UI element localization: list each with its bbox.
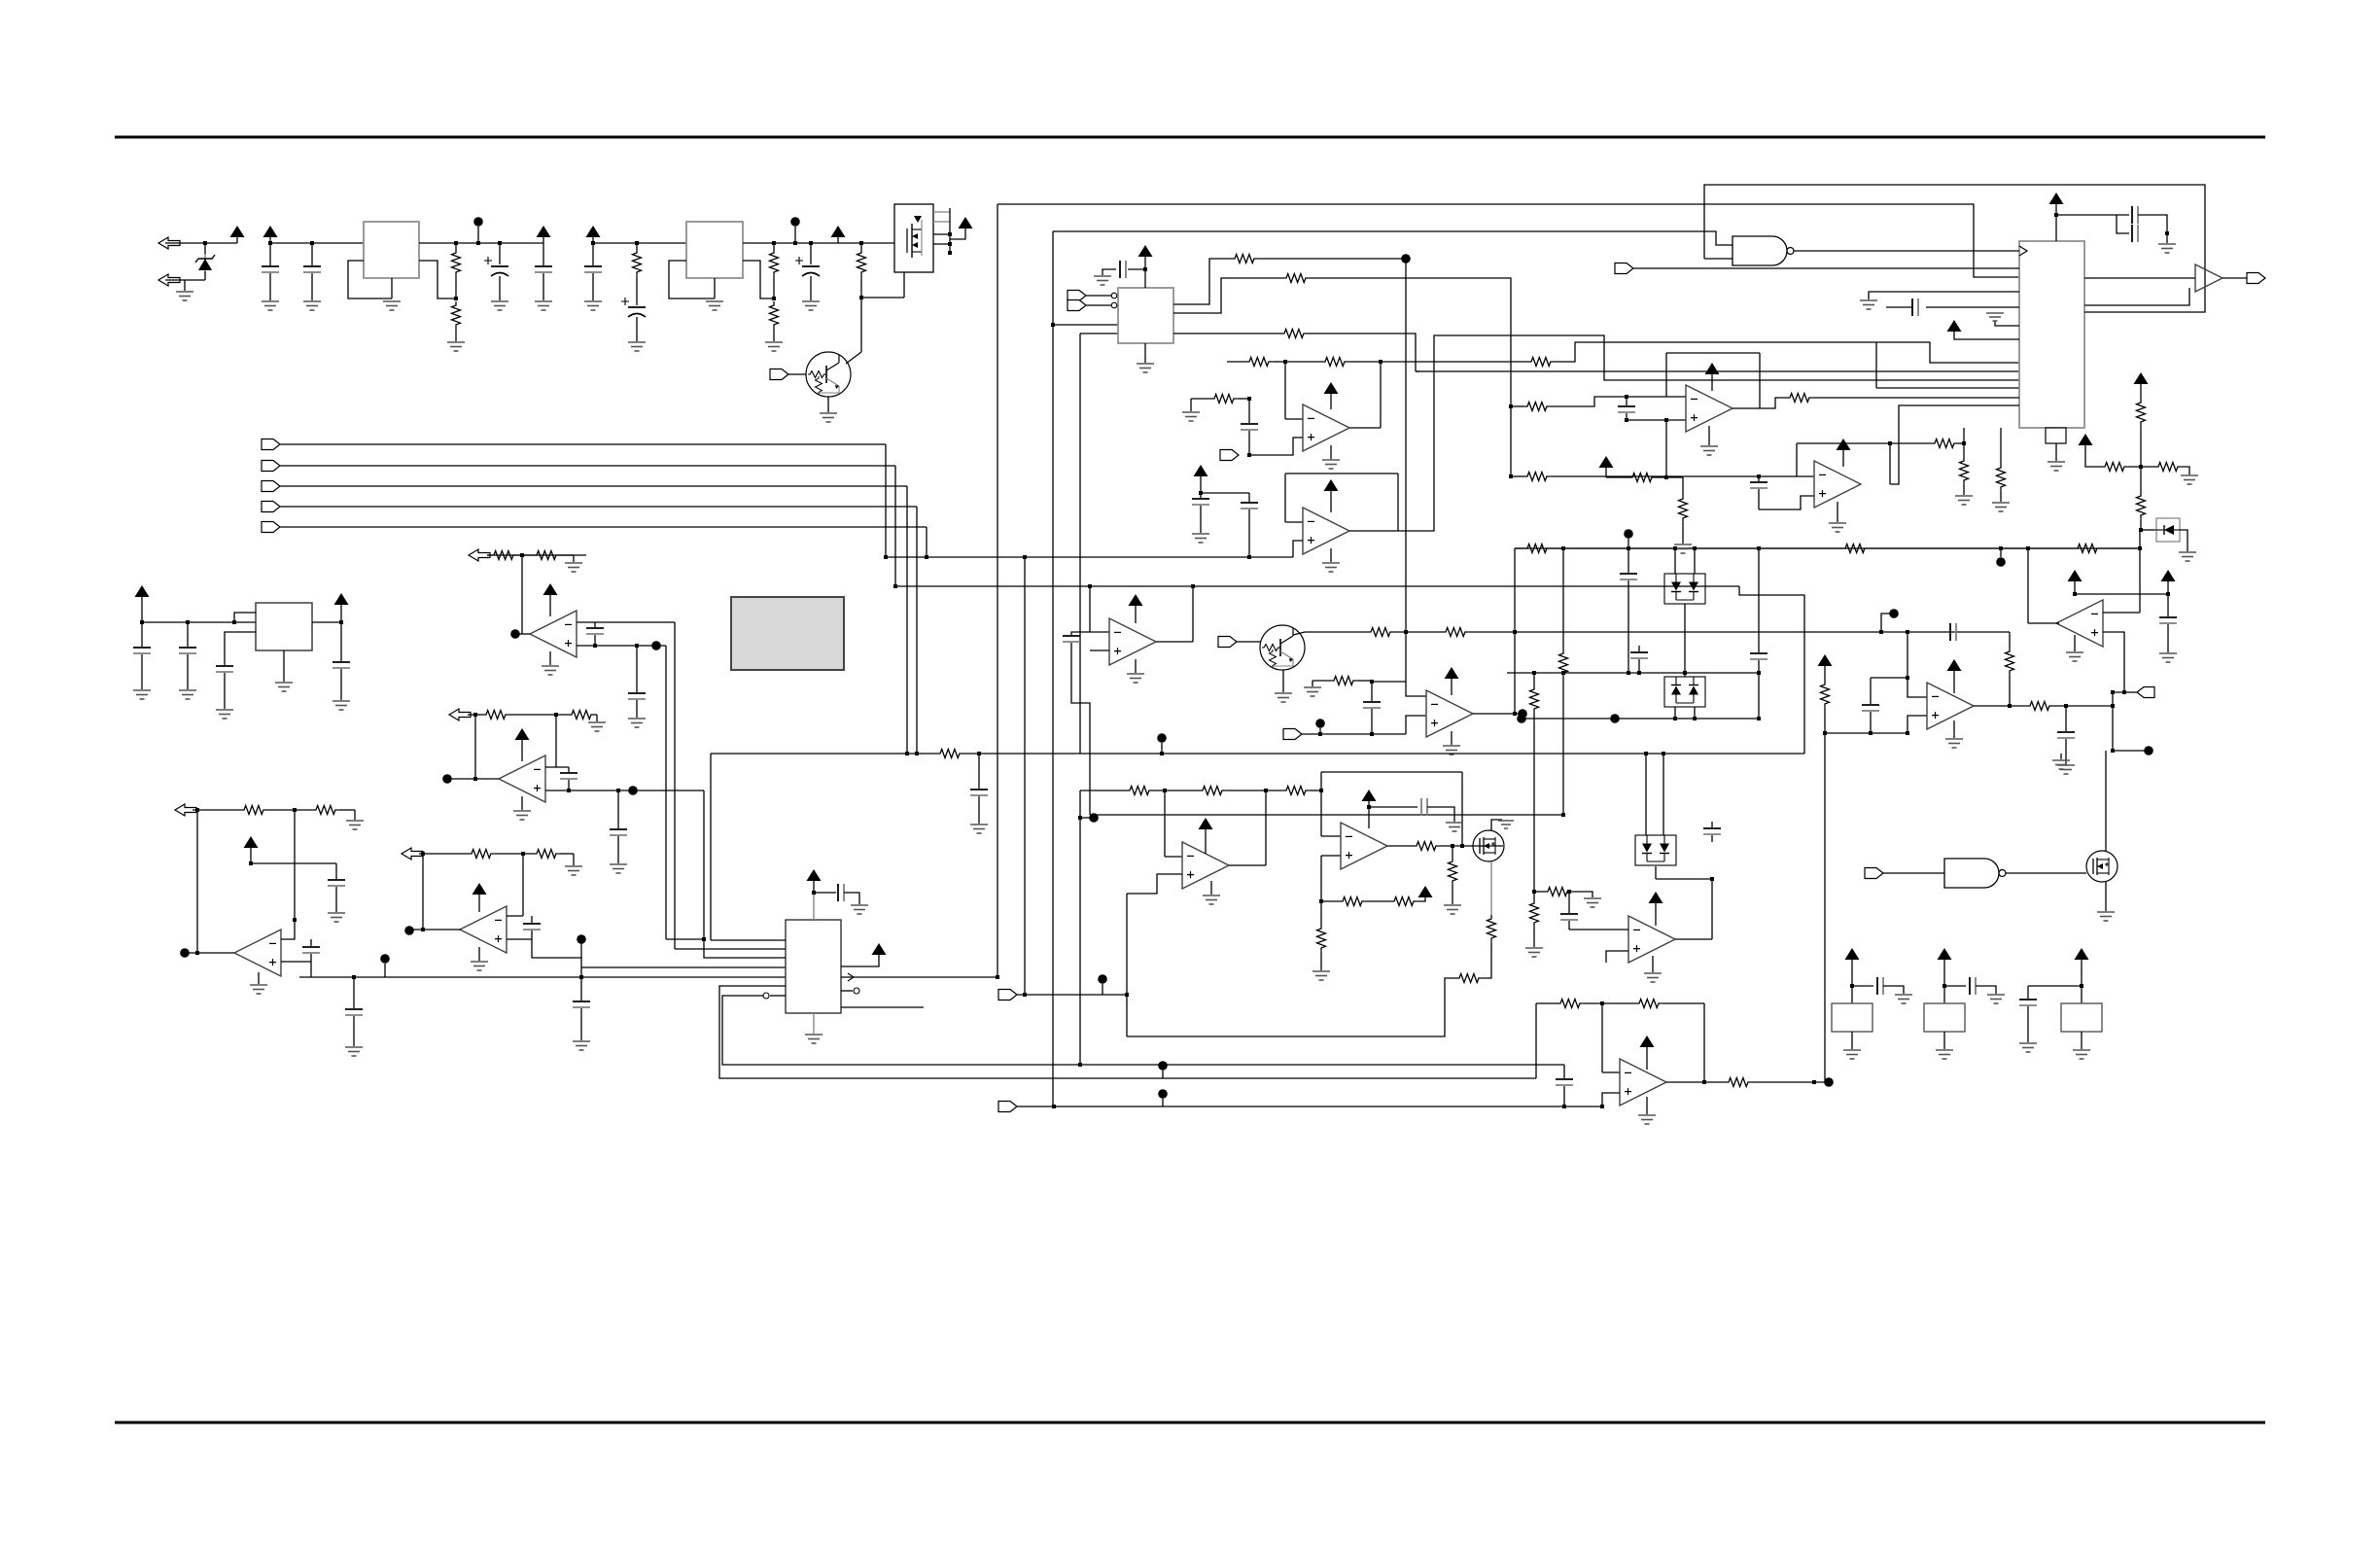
row735 seg1 <box>509 714 568 716</box>
stem <box>1161 743 1163 754</box>
capacitor C30 <box>573 1001 590 1007</box>
wire junction J82 <box>1625 395 1628 399</box>
feedback N top <box>1321 771 1462 773</box>
power stem <box>542 236 544 243</box>
wire <box>636 700 638 718</box>
wire <box>2167 624 2169 652</box>
ground GND40 <box>542 666 559 675</box>
power arrow UG <box>1445 667 1459 679</box>
wire <box>187 622 189 647</box>
net 838 <box>1090 814 1563 816</box>
wire <box>1627 580 1629 673</box>
feedback UC right <box>1192 586 1194 642</box>
wire N plus drop <box>1320 856 1322 901</box>
wire junction J60 <box>1693 717 1697 720</box>
wire <box>340 669 342 700</box>
wire junction J78 <box>2054 213 2058 217</box>
stem <box>1627 539 1629 548</box>
wire <box>573 854 575 865</box>
wire <box>1682 522 1684 544</box>
wire gnd stub <box>2060 754 2062 759</box>
wire IC4 pin2 <box>225 632 256 665</box>
feedback row833 <box>196 810 198 953</box>
wire UF minus riser <box>1907 632 1908 678</box>
mosfet bus wire 1 <box>933 211 950 213</box>
wire junction J43 <box>1513 712 1517 716</box>
stem <box>2074 580 2076 594</box>
wire reg2 output <box>743 242 894 244</box>
wire VIN to zener <box>165 242 237 244</box>
wire U12 out <box>1229 864 1266 866</box>
wire junction J87 <box>1509 474 1513 478</box>
capacitor C 650 <box>1950 623 1956 641</box>
wire <box>2065 706 2067 731</box>
resistor R chain2 <box>2137 399 2146 426</box>
resistor R 1578b <box>1530 899 1539 927</box>
resistor R row5710 <box>490 551 517 560</box>
wire H minus <box>1602 1071 1620 1073</box>
ground GND62 <box>1444 905 1461 914</box>
ground GND18 <box>1192 534 1209 543</box>
node 739 left <box>1517 714 1526 723</box>
IC U3 <box>2019 241 2084 428</box>
capacitor C U3 pin <box>1912 298 1918 316</box>
power arrow mosfet bus <box>959 217 973 228</box>
wire <box>568 767 570 772</box>
ground GND61 <box>1446 823 1463 831</box>
bus wire 1 drop <box>885 444 887 557</box>
transistor Q1 <box>806 352 851 397</box>
row878 seg1 <box>495 853 533 855</box>
resistor R chain1 <box>2101 463 2128 472</box>
wire zener top <box>204 243 206 255</box>
wire junction J40 <box>1370 680 1374 684</box>
wire <box>1320 901 1322 925</box>
wire U9 plus <box>507 938 532 940</box>
net row372 staircase to IC3 <box>1555 342 2019 363</box>
row833 seg0 <box>192 809 240 811</box>
net K2 <box>1017 1106 1602 1107</box>
resistor R row8132 <box>1282 787 1310 795</box>
wire <box>1533 713 1535 719</box>
reg2 adj loop right <box>743 261 774 298</box>
wire H minus drop <box>1601 1003 1603 1072</box>
wire <box>636 317 638 341</box>
net 739 <box>1522 718 1759 720</box>
wire junction J33 <box>1023 555 1027 559</box>
ground UA input <box>1182 412 1200 421</box>
wire UE plus <box>2103 632 2124 692</box>
wire cap3 <box>542 243 544 265</box>
wire junction J119 <box>1600 1105 1604 1108</box>
net row343 to IC3 <box>1575 370 2019 372</box>
node netA <box>1624 529 1633 539</box>
stem <box>1953 670 1955 693</box>
wire Q1 collector slant <box>846 352 861 364</box>
net K1 <box>1017 994 1127 996</box>
wire junction J92 <box>593 644 597 648</box>
ground GND15 <box>1137 364 1154 372</box>
netA seg0 <box>1515 547 1523 549</box>
capacitor C17 <box>970 790 988 795</box>
wire X1 bias riser <box>1665 420 1667 477</box>
wire U8 out <box>189 952 234 954</box>
node P4 <box>577 934 586 944</box>
wire UF minus <box>1907 678 1927 697</box>
trunk 685 <box>665 646 667 939</box>
ground GND39 <box>565 563 582 572</box>
node stem <box>477 227 479 243</box>
wire pcap2 <box>810 243 812 264</box>
wire <box>1944 985 1966 987</box>
net 650 b <box>1394 631 1442 633</box>
node 1111 <box>1089 813 1099 823</box>
wire <box>531 931 533 939</box>
wire junction J14 <box>859 241 863 245</box>
wire UA out <box>1349 427 1381 429</box>
ground GND43 <box>513 811 531 820</box>
wire UC gnd <box>1135 659 1137 673</box>
wire UA plus input <box>1249 438 1303 455</box>
net 603 <box>895 585 1739 587</box>
stem <box>141 596 143 622</box>
resistor R 650b <box>1442 628 1469 637</box>
ground GND19 <box>1322 563 1340 572</box>
wire U14 cap <box>1568 892 1570 913</box>
ground GND24 <box>970 825 988 833</box>
stem <box>1842 450 1844 467</box>
wire junction J47 <box>1693 546 1697 550</box>
wire junction J11 <box>772 241 776 245</box>
wire <box>1943 1032 1945 1049</box>
wire X1 gnd <box>1708 426 1710 445</box>
wire 1578 long <box>1533 719 1535 892</box>
stub node <box>1080 817 1090 819</box>
capacitor C5 <box>584 266 602 272</box>
feedback X1 top <box>1666 352 1760 354</box>
wire netA to diode <box>2139 530 2141 548</box>
connector bus3 <box>262 481 280 492</box>
wire <box>1883 986 1904 994</box>
power arrow UF <box>1947 659 1962 671</box>
wire <box>340 622 342 661</box>
stem <box>1200 475 1202 493</box>
wire <box>1626 413 1627 420</box>
netA seg1 <box>1551 547 1841 549</box>
stem <box>2167 580 2169 594</box>
wire <box>636 243 638 249</box>
ground GND1 <box>176 292 193 300</box>
net T1 to IC3 <box>997 204 2019 277</box>
wire Q5 source <box>2105 881 2107 911</box>
stem <box>1205 828 1207 854</box>
resistor R divider2 bottom <box>770 301 779 329</box>
connector bus4 <box>262 502 280 512</box>
trunk 1159 <box>1126 894 1128 1036</box>
ground GND23 <box>1443 746 1460 755</box>
net A base <box>1515 547 2140 549</box>
wire X1 cap top <box>1627 396 1666 398</box>
wire <box>580 1008 582 1040</box>
wire caps right <box>2138 215 2167 233</box>
wire <box>1320 952 1322 970</box>
wire <box>455 329 457 341</box>
feedback row878 <box>422 854 424 930</box>
node netC <box>1157 733 1167 743</box>
wire junction J131 <box>1532 890 1536 894</box>
wire junction J69 <box>1906 731 1909 735</box>
wire zener bottom <box>204 271 206 280</box>
ground GND38 <box>1829 523 1846 532</box>
wire IC1 pin 343 <box>1080 333 1118 334</box>
wire NAND2 out <box>2006 872 2086 874</box>
power arrow UC <box>1129 594 1143 606</box>
capacitor C35 <box>332 662 350 668</box>
wire junction J88 <box>1757 474 1761 478</box>
feedback UB right <box>1397 474 1399 531</box>
wire <box>335 863 337 879</box>
wire Y3 <box>2028 985 2082 987</box>
wire UB out <box>1349 530 1398 532</box>
node U7 out <box>442 774 452 784</box>
connector NAND2 <box>1865 868 1883 879</box>
ground GND47 <box>250 985 267 994</box>
ground GND20 <box>1127 674 1144 683</box>
wire <box>187 654 189 689</box>
wire <box>310 939 312 946</box>
wire P dpair leg2 <box>1662 754 1664 835</box>
resistor R U3a <box>1960 457 1969 484</box>
wire U14 out <box>1675 938 1712 940</box>
wire <box>592 273 594 300</box>
op-amp UE <box>2056 600 2103 647</box>
bus wire 5 drop <box>926 527 927 557</box>
wire junction J18 <box>948 251 952 255</box>
power arrow U14 <box>1649 892 1663 903</box>
wire junction J91 <box>520 553 524 557</box>
wire <box>1870 712 1872 733</box>
net B <box>1507 672 1759 674</box>
wire U3 sub1 <box>1963 428 1965 457</box>
ground GND33 <box>1992 503 2010 511</box>
wire row490 to X2 <box>1551 475 1797 477</box>
resistor R row10320 <box>1557 1000 1584 1008</box>
node netA right <box>1996 557 2006 567</box>
wire junction J65 <box>1662 752 1665 755</box>
wire junction J135 <box>1850 984 1854 988</box>
row878 segend <box>560 853 574 855</box>
stem <box>1144 256 1146 288</box>
wire junction J51 <box>2138 546 2142 550</box>
capacitor C11 <box>1241 503 1258 509</box>
wire <box>1571 892 1592 897</box>
wire cap2 bottom <box>1638 659 1640 673</box>
crystal Y3 <box>2061 1003 2102 1032</box>
wire junction J12 <box>793 241 797 245</box>
capacitor C U3b <box>2132 225 2138 242</box>
wire cap UG top <box>1371 682 1373 701</box>
wire junction J116 <box>1125 993 1129 997</box>
power stem <box>236 236 238 243</box>
mosfet bus wire 4 <box>933 243 950 245</box>
wire junction J115 <box>1023 993 1027 997</box>
wire <box>1533 673 1535 685</box>
resistor R netA0 <box>1523 544 1551 553</box>
ground GND14 <box>1094 276 1111 285</box>
wire UG out <box>1473 713 1515 715</box>
wire junction J34 <box>1088 584 1092 588</box>
wire junction J100 <box>195 808 199 812</box>
signal arrow row735 <box>449 709 471 720</box>
ground GND6 <box>491 301 508 310</box>
feedback UA <box>1284 362 1286 419</box>
wire junction J86 <box>1509 404 1513 408</box>
wedge U10 out1 <box>848 973 854 981</box>
resistor R X1 gnd <box>1679 495 1688 522</box>
wire UC cap to lower net <box>1071 643 1090 815</box>
ground GND56 <box>332 701 350 710</box>
wire junction J46 <box>1673 546 1677 550</box>
connector UA plus <box>1220 450 1239 461</box>
power arrow rail1 <box>263 226 278 237</box>
wire pcap1 <box>499 243 501 264</box>
ground GND34 <box>2181 475 2198 484</box>
wire <box>335 887 337 912</box>
ground GND26 <box>2057 765 2075 774</box>
wire UB gnd <box>1330 548 1332 562</box>
wire <box>2182 467 2189 474</box>
wire junction J77 <box>2111 749 2115 753</box>
wire <box>2027 986 2029 999</box>
wire U14 gnd <box>1652 956 1654 972</box>
feedback N right <box>1461 772 1463 846</box>
bus wire 1 <box>280 443 886 445</box>
wire U7 out <box>451 778 499 780</box>
wire junction J48 <box>1757 546 1761 550</box>
wire junction J68 <box>1869 731 1872 735</box>
wire to cap <box>1128 268 1145 270</box>
connector K1 <box>998 990 1017 1001</box>
wire UE out <box>2028 622 2059 624</box>
wire junction J89 <box>1888 441 1892 445</box>
capacitor C2 <box>303 266 321 272</box>
wire junction J22 <box>905 752 909 755</box>
wire U3 pin342 <box>1995 321 2019 326</box>
capacitor C24 <box>628 693 646 699</box>
wire U3 pin300 <box>1869 292 2019 299</box>
wire U6 minus <box>577 621 595 623</box>
node U6 out <box>510 629 520 639</box>
resistor R row8130 <box>1126 787 1153 795</box>
diode pair D down <box>1664 574 1705 604</box>
wire junction J64 <box>1644 752 1648 755</box>
power arrow IC4 out <box>334 593 349 605</box>
ground GND9 <box>628 342 646 351</box>
MOSFET Q2 symbol <box>907 216 922 258</box>
net row571 <box>487 554 586 556</box>
wire 1809 upper <box>1758 548 1760 652</box>
wire UG gnd <box>1451 731 1452 745</box>
net 712 <box>2113 691 2137 693</box>
node U9 out <box>404 926 414 935</box>
connector bus5 <box>262 522 280 533</box>
ground GND30 <box>1860 300 1877 309</box>
feedback UC left <box>1090 586 1109 632</box>
op-amp UF <box>1927 683 1974 729</box>
bottom border rule <box>115 1422 2265 1424</box>
wire junction J105 <box>421 852 425 856</box>
wire reg1 output <box>419 242 543 244</box>
trunk 1446 <box>1405 259 1407 682</box>
wire junction J129 <box>1710 877 1714 881</box>
stem <box>1319 728 1321 734</box>
wire U15 gnd <box>1646 1097 1648 1114</box>
feedback X1 right <box>1759 353 1761 408</box>
wire <box>1200 493 1202 498</box>
resistor R netA1 <box>1841 544 1869 553</box>
wire <box>1417 897 1425 901</box>
wire junction J101 <box>293 808 297 812</box>
wire <box>1366 900 1390 902</box>
power stem <box>592 236 594 243</box>
reg1 adj loop right <box>419 261 456 298</box>
wire U9 out <box>413 929 461 931</box>
op-amp U9 <box>460 906 507 953</box>
power arrow Y2 <box>1938 948 1952 960</box>
net U10 pin7 long <box>722 996 1564 1065</box>
wire junction J31 <box>1199 491 1203 495</box>
capacitor C UC <box>1063 636 1080 642</box>
wire U6 gnd <box>549 651 551 665</box>
resistor R Q4 chain <box>1455 974 1483 983</box>
resistor R U3b <box>1997 464 2006 491</box>
wire <box>860 243 862 249</box>
wire U2 out2 <box>1173 278 1282 313</box>
feedback U7 minus <box>555 715 557 767</box>
netC segend <box>963 753 1804 755</box>
wire <box>1248 431 1250 455</box>
wire junction J19 <box>925 555 928 559</box>
trunk T1 down <box>997 204 998 977</box>
node out1 <box>1401 254 1411 263</box>
wire junction J39 <box>1906 630 1909 634</box>
resistor R Q4 <box>1487 915 1496 942</box>
stem <box>1190 399 1192 411</box>
resistor R UG minus <box>1330 677 1357 685</box>
net Q4 to trunk <box>1127 978 1455 1036</box>
wire to diode <box>2141 529 2156 531</box>
wire UC plus <box>1090 650 1109 651</box>
wire X2 minus <box>1797 475 1814 477</box>
capacitor C33 <box>179 648 196 653</box>
wire conn to U3 <box>1633 267 2019 269</box>
op-amp U7 <box>499 755 545 802</box>
feedback X2 left <box>1796 443 1798 476</box>
row1032 segend <box>1662 1002 1704 1004</box>
wire dpair leg2 <box>1694 548 1696 574</box>
wire U3 to buffer <box>2084 277 2195 279</box>
node UF <box>1889 609 1899 618</box>
wire X2 cap lower <box>1758 489 1760 509</box>
ground GND11 <box>765 342 783 351</box>
node +5V <box>473 217 483 227</box>
power arrow Y1 <box>1845 948 1860 960</box>
wire <box>224 673 226 709</box>
wire <box>1248 493 1250 502</box>
feedback UB left <box>1284 474 1286 522</box>
connector UE out <box>2137 687 2154 698</box>
wire junction J90 <box>1962 441 1966 445</box>
